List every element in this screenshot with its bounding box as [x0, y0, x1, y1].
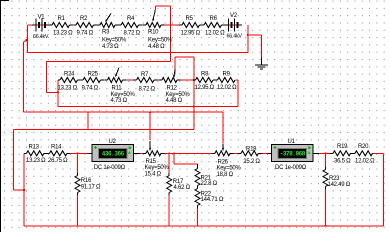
svg-text:R13: R13: [29, 144, 40, 150]
svg-text:13.23 Ω: 13.23 Ω: [53, 31, 73, 37]
svg-text:V1: V1: [38, 15, 46, 21]
svg-text:R4: R4: [127, 16, 135, 22]
svg-text:13.23 Ω: 13.23 Ω: [58, 86, 78, 92]
svg-text:4.48 Ω: 4.48 Ω: [148, 44, 165, 50]
svg-text:Key=50%: Key=50%: [145, 165, 170, 171]
svg-text:R19: R19: [337, 144, 348, 150]
svg-text:36.5 Ω: 36.5 Ω: [334, 159, 351, 165]
svg-text:R18: R18: [246, 146, 257, 152]
svg-text:R12: R12: [167, 86, 178, 92]
svg-text:R1: R1: [58, 16, 66, 22]
svg-text:R15: R15: [146, 159, 157, 165]
svg-text:436.366: 436.366: [102, 151, 125, 158]
svg-text:R25: R25: [88, 72, 99, 78]
svg-text:R14: R14: [51, 144, 62, 150]
svg-text:Key=50%: Key=50%: [111, 92, 136, 98]
svg-text:12.02 Ω: 12.02 Ω: [205, 31, 225, 37]
svg-text:R23: R23: [329, 176, 340, 182]
svg-text:R7: R7: [141, 72, 149, 78]
svg-text:26.75 Ω: 26.75 Ω: [48, 158, 68, 164]
svg-text:R8: R8: [201, 72, 209, 78]
svg-text:9.74 Ω: 9.74 Ω: [82, 86, 99, 92]
svg-text:R20: R20: [358, 144, 369, 150]
svg-text:12.02 Ω: 12.02 Ω: [217, 85, 237, 91]
svg-text:R11: R11: [112, 86, 123, 92]
svg-text:R3: R3: [102, 30, 110, 36]
svg-text:15.4 Ω: 15.4 Ω: [145, 171, 162, 177]
svg-text:DC 1e-009Ω: DC 1e-009Ω: [275, 165, 307, 171]
svg-text:R24: R24: [64, 72, 75, 78]
svg-text:-378.068: -378.068: [280, 151, 306, 158]
svg-text:R6: R6: [210, 16, 218, 22]
svg-text:25.2 Ω: 25.2 Ω: [243, 159, 260, 165]
svg-text:66.4kV: 66.4kV: [33, 34, 49, 40]
svg-text:8.72 Ω: 8.72 Ω: [124, 31, 141, 37]
svg-text:R9: R9: [223, 72, 231, 78]
svg-text:144.71 Ω: 144.71 Ω: [201, 197, 224, 203]
svg-text:R10: R10: [148, 30, 159, 36]
svg-text:142.49 Ω: 142.49 Ω: [328, 182, 351, 188]
svg-text:R17: R17: [173, 179, 184, 185]
svg-text:U1: U1: [288, 139, 296, 145]
svg-text:V2: V2: [230, 13, 238, 19]
svg-text:13.23 Ω: 13.23 Ω: [26, 158, 46, 164]
svg-text:Key=50%: Key=50%: [148, 38, 173, 44]
svg-text:18.8 Ω: 18.8 Ω: [217, 172, 234, 178]
svg-text:4.62 Ω: 4.62 Ω: [174, 185, 191, 191]
svg-text:4.73 Ω: 4.73 Ω: [111, 98, 128, 104]
svg-text:4.73 Ω: 4.73 Ω: [102, 44, 119, 50]
svg-text:R16: R16: [81, 178, 92, 184]
svg-text:8.72 Ω: 8.72 Ω: [139, 87, 156, 93]
svg-text:12.95 Ω: 12.95 Ω: [181, 31, 201, 37]
svg-text:U2: U2: [109, 139, 117, 145]
svg-text:91.17 Ω: 91.17 Ω: [81, 184, 101, 190]
svg-text:4.48 Ω: 4.48 Ω: [166, 98, 183, 104]
svg-text:R2: R2: [80, 16, 88, 22]
svg-text:12.02 Ω: 12.02 Ω: [355, 159, 375, 165]
svg-text:22.8 Ω: 22.8 Ω: [201, 181, 218, 187]
svg-text:9.74 Ω: 9.74 Ω: [77, 31, 94, 37]
svg-text:12.95 Ω: 12.95 Ω: [195, 85, 215, 91]
svg-text:DC 1e-009Ω: DC 1e-009Ω: [94, 165, 126, 171]
svg-text:Key=50%: Key=50%: [166, 92, 191, 98]
svg-text:Key=50%: Key=50%: [217, 166, 242, 172]
svg-text:Key=50%: Key=50%: [102, 38, 127, 44]
svg-text:R5: R5: [186, 16, 194, 22]
svg-text:66.4kV: 66.4kV: [227, 34, 243, 40]
svg-text:R26: R26: [218, 160, 229, 166]
